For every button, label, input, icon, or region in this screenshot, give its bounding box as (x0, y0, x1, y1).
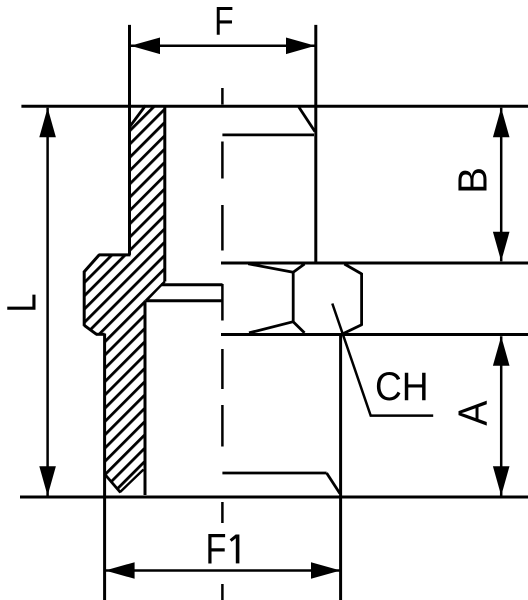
L bottom arrowhead (39, 466, 56, 496)
female bore bottom line (161, 283, 223, 286)
hexagon top-right chamfer (344, 264, 361, 274)
F1 right arrowhead (311, 562, 341, 579)
hexagon right corner edge (360, 273, 363, 326)
A bottom arrowhead (493, 466, 510, 496)
hexagon top-left chamfer (248, 264, 293, 272)
svg-text:L: L (0, 293, 45, 312)
hexagon bottom-right chamfer (343, 325, 362, 334)
CH leader line (332, 304, 433, 416)
bottom-left thread chamfer (105, 475, 121, 493)
last hatch edge line (120, 470, 144, 493)
B top arrowhead (493, 108, 510, 138)
male bore wall (144, 301, 147, 495)
hex top extension line (221, 262, 528, 265)
top face line (21, 105, 528, 108)
hexagon mid-face bottom chamfer (293, 322, 304, 333)
top-left thread chamfer (130, 106, 146, 128)
left outer edge top barrel (128, 25, 131, 255)
svg-text:A: A (450, 400, 496, 426)
male thread end line (222, 472, 326, 475)
A top arrowhead (493, 336, 510, 366)
dimension F1 line (106, 569, 341, 572)
bottom face line (20, 496, 528, 499)
left outer edge bottom barrel + F1 extension (103, 334, 106, 600)
hexagon bottom-left chamfer (249, 322, 293, 333)
flange bottom horizontal (96, 333, 105, 336)
hatched cross-section left half (84, 106, 165, 492)
female bore wall (163, 106, 166, 282)
svg-text:F: F (214, 0, 234, 43)
dimension B line (500, 108, 503, 261)
flange left edge (83, 271, 86, 326)
flange top chamfer (84, 255, 99, 272)
F left arrowhead (131, 38, 161, 55)
right outer edge top barrel + F extension (314, 25, 317, 263)
L top arrowhead (39, 108, 56, 138)
hex bottom extension line (221, 333, 528, 336)
svg-text:F: F (206, 526, 227, 573)
male thread end chamfer (327, 473, 340, 494)
dimension F line (131, 45, 316, 48)
right outer edge bottom barrel + F1 extension (339, 335, 342, 600)
hexagon left face edge (292, 271, 295, 323)
hexagon mid-face top chamfer (293, 264, 304, 272)
dimension A line (500, 336, 503, 496)
bore-to-shoulder transition diagonal (146, 282, 165, 301)
centerline dashes (221, 88, 224, 600)
F right arrowhead (286, 38, 315, 55)
top-right entry chamfer (299, 107, 315, 132)
svg-text:CH: CH (375, 365, 429, 410)
svg-text:B: B (449, 167, 495, 194)
flange step top horizontal (99, 253, 131, 256)
male bore shoulder line (146, 299, 223, 302)
dimension L line (46, 108, 49, 496)
flange bottom chamfer (84, 325, 96, 334)
B bottom arrowhead (493, 232, 510, 261)
F1 left arrowhead (105, 562, 135, 579)
entry chamfer ring line (222, 133, 314, 136)
